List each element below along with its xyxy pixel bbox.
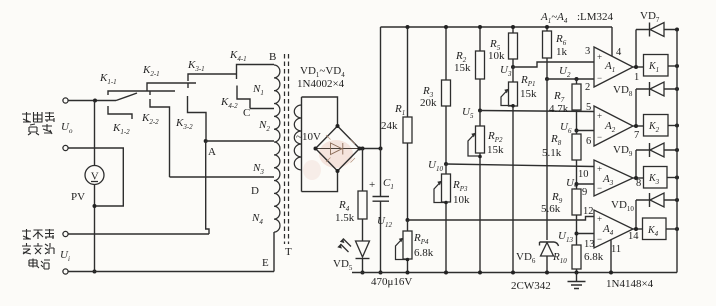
wire rail up to top bus — [380, 27, 382, 149]
svg-text:K2-1: K2-1 — [142, 64, 160, 78]
top supply bus — [381, 26, 613, 28]
zener wire down — [546, 79, 548, 240]
svg-text:470μ16V: 470μ16V — [371, 276, 412, 288]
wire U9 to pin 9 — [577, 183, 595, 185]
potentiometer RP3 — [445, 164, 447, 174]
svg-text:VD10: VD10 — [611, 199, 634, 213]
svg-text:Ui: Ui — [60, 249, 70, 263]
svg-text:VD7: VD7 — [640, 10, 660, 24]
op-amp A4 — [594, 210, 633, 248]
svg-text:V: V — [91, 171, 99, 183]
wire secondary top to bridge — [302, 97, 338, 126]
svg-text:U5: U5 — [462, 106, 474, 120]
pin 1 output — [633, 66, 644, 68]
pin 7 output — [633, 125, 644, 127]
diode VD8 — [636, 88, 677, 90]
node bridge bottom vertex — [336, 169, 340, 173]
svg-text:VD5: VD5 — [333, 258, 353, 272]
svg-text:U2: U2 — [559, 65, 571, 79]
svg-text:4: 4 — [616, 47, 622, 58]
node rail corner — [379, 147, 383, 151]
node bridge left vertex — [314, 147, 318, 151]
svg-text:T: T — [285, 246, 292, 258]
resistor R6 — [546, 27, 548, 31]
potentiometer RP1 — [512, 67, 514, 82]
pin 4 wire — [611, 27, 613, 56]
svg-text:1N4148×4: 1N4148×4 — [606, 278, 654, 290]
svg-text:VD8: VD8 — [613, 84, 633, 98]
resistor R4 — [362, 149, 364, 192]
resistor R8 — [576, 131, 578, 135]
svg-text:12: 12 — [583, 206, 594, 217]
label 接用电 (load text line1) — [22, 112, 54, 122]
bridge internal line — [316, 148, 360, 150]
node on terminal4 bus — [93, 270, 97, 274]
wire U12 to pin 12 — [408, 217, 595, 221]
svg-text:4.7k: 4.7k — [549, 103, 569, 115]
bridge rectifier VD1-VD4 diamond — [316, 126, 360, 171]
svg-text:+: + — [597, 111, 602, 121]
terminal 2 (Uo bottom) — [63, 145, 68, 150]
svg-text:N3: N3 — [252, 162, 264, 176]
relay coil K3 — [644, 167, 668, 189]
svg-text:15k: 15k — [454, 62, 471, 74]
terminal 4 (Ui bottom) — [63, 269, 68, 274]
label 接不稳 (source text line1) — [22, 229, 54, 239]
transformer core — [285, 54, 289, 244]
svg-text:R7: R7 — [553, 90, 565, 104]
svg-text:−: − — [597, 132, 602, 142]
svg-text:RP1: RP1 — [520, 74, 536, 88]
wire meter top — [94, 101, 96, 166]
svg-text:A: A — [208, 146, 216, 158]
svg-text:R6: R6 — [555, 33, 567, 47]
svg-text:15k: 15k — [487, 144, 504, 156]
ground bottom bus — [352, 272, 677, 274]
svg-text:+: + — [369, 179, 375, 191]
svg-text:D: D — [251, 185, 259, 197]
relay contact K4-1 — [237, 65, 275, 80]
svg-text:5: 5 — [586, 102, 591, 113]
wire U5 to pin 5 — [480, 111, 594, 112]
svg-text:RP4: RP4 — [413, 232, 429, 246]
node U6 — [575, 129, 579, 133]
terminal 3 (Ui top) — [63, 231, 68, 236]
node R4 tap — [361, 147, 365, 151]
node U13 — [575, 232, 579, 236]
svg-text:K4-2: K4-2 — [220, 96, 238, 110]
svg-text:VD1~VD4: VD1~VD4 — [300, 65, 345, 79]
svg-text:U3: U3 — [500, 64, 512, 78]
svg-text:RP3: RP3 — [452, 179, 468, 193]
svg-text:U12: U12 — [377, 215, 392, 229]
svg-text:14: 14 — [628, 231, 639, 242]
terminal 1 (Uo top) — [63, 98, 68, 103]
svg-text:A1~A4: A1~A4 — [540, 11, 568, 25]
relay coil K1 — [644, 55, 669, 77]
svg-text:R4: R4 — [338, 199, 350, 213]
svg-text:VD6: VD6 — [516, 251, 536, 265]
resistor R3 — [445, 27, 447, 80]
label 电源 (source text line3) — [29, 259, 50, 270]
svg-text:+: + — [597, 164, 602, 174]
svg-text:U10: U10 — [428, 159, 443, 173]
diode VD9 — [636, 149, 677, 151]
node U3 — [511, 65, 515, 69]
svg-text:−: − — [597, 183, 602, 193]
svg-text:~10V: ~10V — [296, 131, 321, 143]
wire U6 to pin 6 — [577, 130, 595, 132]
pin 8 output — [633, 177, 644, 179]
svg-text:5.1k: 5.1k — [542, 147, 562, 159]
node U12 — [406, 218, 410, 222]
node A — [204, 139, 208, 143]
op-amp A3 — [594, 160, 633, 196]
relay coil K4 — [643, 218, 667, 240]
wire node A down to terminal3 wire — [206, 141, 209, 234]
svg-text:K3-2: K3-2 — [175, 117, 193, 131]
wire DC+ rail from bridge — [360, 148, 381, 150]
node U10 — [444, 162, 448, 166]
wire meter bottom to terminal4 bus — [94, 185, 96, 272]
relay contact K4-2 — [237, 86, 250, 109]
svg-text:C: C — [243, 107, 250, 119]
label 负载 (load text line2) — [28, 124, 52, 135]
op-amp A2 — [594, 106, 633, 146]
relay contact K3-1 — [188, 74, 237, 81]
svg-text:20k: 20k — [420, 97, 437, 109]
relay contact K1-2 — [108, 106, 132, 119]
svg-text:11: 11 — [611, 244, 621, 255]
ground symbol — [576, 273, 578, 282]
svg-text:9: 9 — [582, 187, 587, 198]
svg-text:−: − — [597, 73, 602, 83]
svg-text:6.8k: 6.8k — [584, 251, 604, 263]
node bridge top vertex — [336, 124, 340, 128]
potentiometer RP4 — [407, 220, 409, 231]
svg-text:6.8k: 6.8k — [414, 247, 434, 259]
relay contact K2-2 — [149, 91, 151, 95]
svg-text:13: 13 — [584, 239, 595, 250]
svg-text:10k: 10k — [488, 50, 505, 62]
svg-text:+: + — [597, 214, 602, 224]
svg-text:7: 7 — [634, 130, 639, 141]
svg-text:2: 2 — [585, 82, 590, 93]
svg-text:PV: PV — [71, 191, 85, 203]
svg-text:1N4002×4: 1N4002×4 — [297, 78, 345, 90]
bridge smudge tint — [319, 140, 353, 168]
svg-text:10: 10 — [578, 169, 589, 180]
resistor R10 — [572, 245, 581, 269]
wire terminal2 down to meter node — [68, 148, 123, 206]
svg-text:K4-1: K4-1 — [229, 49, 247, 63]
svg-text:N1: N1 — [252, 83, 264, 97]
svg-text:R10: R10 — [552, 251, 567, 265]
resistor R2 — [479, 27, 481, 51]
label 定交流 (source text line2) — [22, 243, 54, 254]
transformer secondary winding — [301, 97, 303, 192]
svg-text:R1: R1 — [394, 103, 405, 117]
svg-text:N4: N4 — [251, 212, 263, 226]
svg-text:5.6k: 5.6k — [541, 203, 561, 215]
wire terminal1 to K1-1 — [68, 100, 116, 102]
svg-text:2CW342: 2CW342 — [511, 280, 551, 292]
svg-text:U13: U13 — [558, 230, 573, 244]
resistor R1 — [407, 27, 409, 117]
wire node A to transformer tap — [206, 140, 274, 142]
wire U13 to pin 13 — [577, 233, 595, 235]
svg-text:K1-1: K1-1 — [99, 72, 117, 86]
svg-text:+: + — [597, 52, 602, 62]
diode VD10 — [636, 199, 677, 201]
svg-text:10k: 10k — [453, 194, 470, 206]
svg-text:1.5k: 1.5k — [335, 212, 355, 224]
node meter bottom junction — [93, 204, 97, 208]
node U9 — [575, 182, 579, 186]
wire C tap — [250, 108, 274, 110]
svg-text:RP2: RP2 — [487, 130, 503, 144]
svg-text:1: 1 — [634, 72, 639, 83]
wire U2 to pin 2 — [547, 78, 594, 80]
resistor R5 — [512, 27, 514, 33]
svg-text:N2: N2 — [258, 119, 270, 133]
pin 11 wire to ground — [610, 240, 612, 273]
svg-text:3: 3 — [585, 46, 590, 57]
voltmeter PV — [85, 166, 104, 185]
zener diode VD6 2CW342 — [541, 243, 554, 257]
svg-text:C1: C1 — [383, 177, 394, 191]
node bridge right vertex — [358, 147, 362, 151]
node U5 — [478, 109, 482, 113]
wire U10 to pin 10 — [446, 164, 594, 167]
capacitor C1 — [380, 149, 382, 197]
relay contact K2-1 — [147, 83, 196, 92]
svg-text:K3-1: K3-1 — [187, 59, 205, 73]
op-amp A1 — [594, 47, 633, 87]
bridge internal diode — [331, 143, 343, 155]
relay coil K2 — [644, 115, 669, 137]
resistor R7 — [576, 79, 578, 84]
diode VD7 — [636, 29, 677, 31]
svg-text:−: − — [597, 234, 602, 244]
pin 14 output — [633, 228, 643, 230]
node U2 — [545, 77, 549, 81]
potentiometer RP2 — [479, 111, 481, 127]
svg-text:6: 6 — [586, 136, 591, 147]
wire U3 to pin 3 — [513, 62, 594, 67]
svg-text:VD9: VD9 — [613, 144, 633, 158]
svg-text:Uo: Uo — [61, 121, 73, 135]
svg-text::LM324: :LM324 — [577, 11, 614, 23]
wire D tap — [170, 176, 275, 178]
relay supply rail — [676, 30, 678, 273]
svg-text:K2-2: K2-2 — [141, 112, 159, 126]
wire terminal4 to transformer E — [68, 271, 274, 273]
svg-text:K1-2: K1-2 — [112, 122, 130, 136]
LED VD5 — [362, 219, 364, 241]
transformer primary winding — [274, 65, 280, 232]
node R7 top — [575, 77, 579, 81]
svg-text:1k: 1k — [556, 46, 568, 58]
resistor R9 — [572, 189, 581, 215]
svg-text:B: B — [269, 51, 276, 63]
wire transformer E lead — [273, 232, 275, 272]
svg-text:E: E — [262, 257, 269, 269]
relay contact K3-2 — [187, 83, 189, 88]
node junction at meter top branch — [93, 99, 97, 103]
svg-text:15k: 15k — [520, 88, 537, 100]
wire secondary bottom to bridge — [302, 171, 338, 192]
svg-text:24k: 24k — [381, 120, 398, 132]
svg-text:U6: U6 — [560, 121, 572, 135]
relay contact K1-1 — [116, 93, 137, 101]
wire terminal3 to node A drop — [68, 233, 209, 235]
svg-text:R8: R8 — [550, 133, 562, 147]
